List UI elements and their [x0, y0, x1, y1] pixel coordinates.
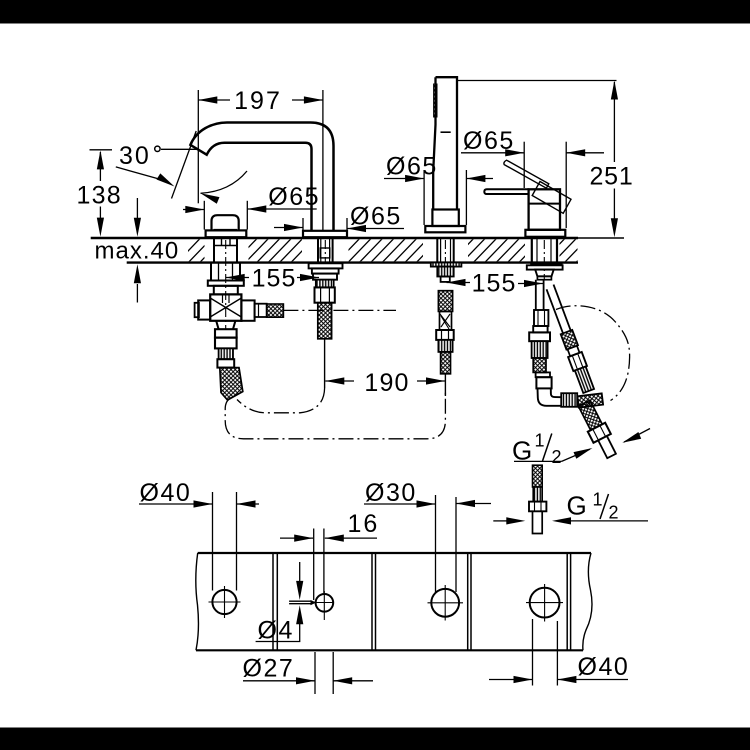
- separator pair 1: [272, 553, 274, 650]
- svg-text:Ø65: Ø65: [350, 203, 402, 231]
- hole 2 (O27): [316, 594, 334, 612]
- union nut: [215, 329, 237, 337]
- dim O65 item2: [274, 218, 404, 230]
- angle arc: [201, 171, 248, 193]
- washers and nuts below deck: [309, 263, 343, 268]
- plan dim O30: [364, 495, 491, 592]
- holder cup: [432, 210, 458, 227]
- deck hatching: [176, 238, 600, 264]
- svg-text:Ø40: Ø40: [578, 653, 630, 681]
- knurled coupling: [438, 340, 452, 352]
- braid 2: [441, 352, 451, 374]
- nut: [437, 267, 453, 277]
- washers: [531, 262, 562, 265]
- plan dim 16: [280, 529, 377, 601]
- threaded shank in deck: [214, 239, 237, 263]
- plan dim O4: [256, 562, 301, 642]
- knurled stub (check valve): [267, 304, 284, 317]
- top black bar: [0, 0, 750, 24]
- hole 3 (O30): [431, 589, 459, 617]
- ITEM 4: single-lever mixer, center x=545: [484, 160, 629, 460]
- right port nut: [241, 300, 254, 320]
- ITEM 1: side valve / diverter handle, center x=225.7: [195, 215, 396, 400]
- loose hand-shower hose end (vertical): [529, 465, 546, 533]
- neck: [214, 286, 238, 295]
- deck cross-section top line: [91, 237, 578, 239]
- centerline: [543, 240, 545, 280]
- svg-text:2: 2: [609, 503, 619, 523]
- svg-text:16: 16: [348, 510, 380, 538]
- svg-text:138: 138: [77, 181, 122, 209]
- ITEM 2: spout, center x=325: [190, 123, 347, 389]
- leader from circle to tip: [161, 148, 198, 150]
- lower taper: [216, 321, 235, 329]
- bottom black bar: [0, 728, 750, 750]
- dim 155 right: [447, 283, 544, 284]
- shank in deck: [437, 239, 453, 263]
- separator pair 3: [467, 553, 469, 650]
- centerline: [324, 240, 326, 263]
- svg-text:1: 1: [535, 431, 545, 451]
- leader line with arrow to slant line: [116, 167, 168, 182]
- deck cross-section bottom line: [127, 261, 578, 263]
- left break line: [196, 553, 199, 650]
- svg-text:max.40: max.40: [95, 237, 180, 264]
- dim O65 item4: [461, 142, 604, 228]
- shank in deck: [318, 239, 333, 263]
- wand body: [433, 77, 457, 209]
- svg-text:197: 197: [234, 87, 282, 115]
- spout flange: [303, 231, 347, 237]
- hex coupler: [217, 359, 234, 367]
- shank in deck: [532, 239, 557, 263]
- braided hose (bends right): [220, 368, 243, 400]
- lever arm: [484, 189, 528, 194]
- horizontal knurled coupler: [561, 393, 577, 407]
- braided hose: [318, 303, 332, 339]
- hex nut taper: [535, 270, 554, 277]
- separator pair 2: [371, 553, 373, 650]
- deck strip bottom edge: [196, 649, 583, 651]
- left port: [198, 300, 210, 319]
- svg-text:2: 2: [552, 447, 562, 467]
- dim 197 extension lines: [197, 90, 199, 203]
- svg-text:Ø65: Ø65: [268, 183, 320, 211]
- O4 slot: [289, 600, 312, 602]
- output hose: braid, nut, tube going down-right: [576, 399, 620, 461]
- left stack: [534, 310, 548, 326]
- plan dim O40 right: [489, 619, 628, 686]
- dim 197 line: [198, 99, 230, 101]
- knob base line: [214, 229, 238, 231]
- hex nut: [436, 330, 454, 340]
- right angled hose assembly: [543, 284, 596, 394]
- seam tick: [441, 131, 451, 133]
- svg-text:Ø27: Ø27: [243, 655, 295, 683]
- svg-text:190: 190: [364, 369, 409, 397]
- check valve axis dash-dot: [283, 309, 396, 311]
- elbow: [538, 388, 562, 405]
- knurled ring: [219, 348, 233, 359]
- flange: [525, 230, 565, 237]
- right break line: [583, 553, 592, 650]
- svg-text:155: 155: [252, 264, 297, 292]
- base plate: [208, 281, 244, 286]
- hose line: [444, 374, 446, 396]
- svg-text:251: 251: [589, 163, 633, 191]
- svg-text:155: 155: [472, 269, 517, 297]
- pull-out loop dash-dot: [556, 306, 630, 401]
- marked section: [440, 311, 452, 330]
- hose routing curve item1 to item2 (dash-dot): [237, 388, 325, 413]
- dim 190: [325, 380, 445, 382]
- svg-text:Ø40: Ø40: [140, 479, 192, 507]
- plan dim O40 left: [139, 492, 259, 591]
- centerline: [444, 240, 446, 263]
- washer: [431, 263, 462, 267]
- svg-text:Ø4: Ø4: [258, 617, 294, 645]
- escutcheon flange: [425, 226, 465, 232]
- svg-text:Ø65: Ø65: [463, 127, 515, 155]
- shank below deck: [211, 263, 240, 281]
- centerline: [225, 240, 227, 330]
- mixer body: [529, 189, 560, 230]
- spout tube: [190, 123, 333, 231]
- left supply tube: [536, 280, 544, 310]
- separator pair 4: [566, 553, 568, 650]
- handle knob: [212, 215, 239, 230]
- svg-text:Ø30: Ø30: [365, 479, 417, 507]
- phantom tilted lever: [504, 160, 571, 213]
- deck strip top edge: [198, 552, 591, 554]
- spray face strip: [434, 84, 437, 117]
- svg-text:30: 30: [119, 142, 151, 170]
- dim O65 item1: [183, 201, 317, 230]
- hose line: [324, 339, 326, 388]
- degree circle: [155, 146, 160, 151]
- hose routing curve item1 to item3 (dash-dot): [225, 390, 445, 439]
- svg-text:1: 1: [593, 490, 603, 510]
- checkered block: [577, 393, 603, 407]
- dim 155 left: [226, 277, 319, 279]
- dim 251: [458, 81, 617, 233]
- svg-text:G: G: [567, 491, 587, 521]
- dim 138: [90, 150, 113, 232]
- svg-text:Ø65: Ø65: [386, 153, 438, 181]
- hole 1 (O40): [212, 590, 236, 614]
- dim O65 item3: [384, 170, 493, 225]
- 30 deg slant line: [172, 131, 197, 199]
- hole 4 (O40): [530, 588, 560, 618]
- escutcheon flange: [206, 230, 247, 237]
- valve body with cross symbol: [210, 294, 241, 320]
- right cylinder: [255, 304, 267, 317]
- ITEM 3: hand shower wand, center x=445.3: [425, 77, 465, 396]
- braid 1: [438, 291, 452, 312]
- plan dim O27: [243, 652, 373, 694]
